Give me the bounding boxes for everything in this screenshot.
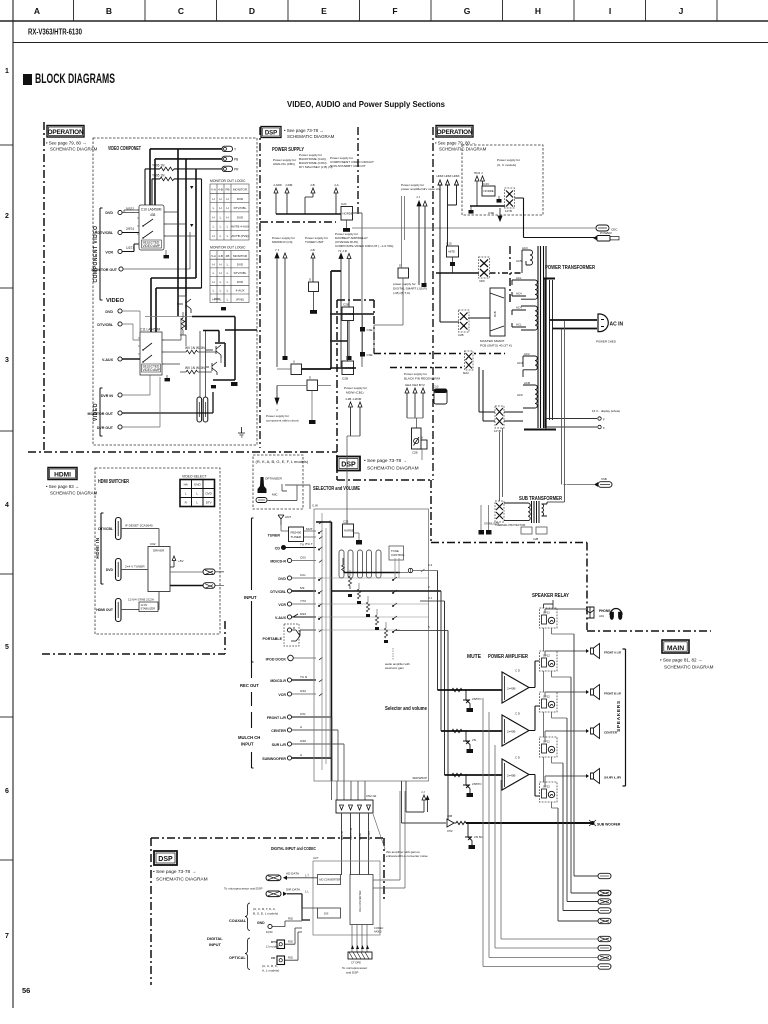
svg-text:J J: J J [421, 790, 425, 794]
svg-text:J J: J J [416, 195, 420, 199]
bracket INPUT [244, 518, 257, 662]
svg-text:G: G [464, 6, 471, 16]
svg-text:2×4 V TUNER: 2×4 V TUNER [125, 565, 145, 569]
wire relay column verticals [543, 628, 545, 782]
connector pill CEC [596, 225, 618, 232]
UC box text [474, 158, 520, 175]
jack DVR IN [101, 375, 150, 398]
svg-text:SUR L/R: SUR L/R [604, 776, 622, 780]
svg-text:J-B: J-B [310, 183, 315, 187]
svg-text:2×40B: 2×40B [507, 774, 516, 778]
wire amp1 to relay2 [529, 661, 540, 688]
sub transformer core [532, 501, 540, 523]
op-amp A3 [502, 756, 529, 791]
svg-text:L: L [213, 225, 215, 229]
fuse X low pair [494, 406, 504, 433]
svg-text:C.W: C.W [312, 504, 318, 508]
wire into D2 [277, 385, 331, 387]
connector pill POWER [593, 231, 619, 241]
op-amp A2 [502, 712, 529, 747]
coaxial group [229, 903, 318, 934]
svg-text:H: H [212, 215, 214, 219]
resistor R3 vertical [181, 312, 185, 335]
svg-text:SPEAKER RELAY: SPEAKER RELAY [532, 593, 569, 599]
svg-text:L: L [227, 280, 229, 284]
svg-text:DSP: DSP [158, 856, 173, 863]
selector row thick DTV [332, 590, 442, 592]
svg-text:electronic gain: electronic gain [385, 666, 404, 670]
relay RY5 sur [540, 782, 558, 802]
svg-text:1/377: 1/377 [126, 246, 134, 250]
wire uc to power line [515, 198, 524, 211]
svg-text:TU T: TU T [306, 542, 313, 546]
mute row 2 wire [441, 730, 502, 732]
psu text digital smart [393, 282, 427, 295]
svg-text:Selector and volume: Selector and volume [385, 706, 427, 712]
wire thick psu 314 [330, 313, 374, 315]
relay RY2 front A [540, 651, 558, 671]
svg-text:SP12: SP12 [543, 611, 550, 615]
svg-text:DVD: DVD [237, 280, 244, 284]
resistor RM4 [454, 821, 466, 824]
connector arrow dav filled [339, 254, 343, 259]
wire mute stems [419, 206, 425, 285]
svg-text:+5V: +5V [178, 559, 185, 563]
svg-text:C10 LA6458M: C10 LA6458M [141, 208, 162, 212]
svg-text:L: L [227, 225, 229, 229]
svg-text:DVD: DVD [105, 310, 113, 314]
diode D5 blob [497, 196, 502, 203]
label MAIN [660, 640, 714, 670]
wire component PR bus with resistor R1 [145, 164, 222, 206]
psu text component video [330, 156, 374, 187]
svg-text:C3E: C3E [367, 328, 373, 332]
svg-text:DIGITAL SMART (J,B,R): DIGITAL SMART (J,B,R) [393, 287, 427, 291]
svg-text:SPEAKERS: SPEAKERS [616, 700, 621, 732]
hdmi connector DVD [106, 559, 121, 581]
svg-text:FRONT L/R: FRONT L/R [267, 716, 287, 720]
svg-text:H: H [219, 263, 221, 267]
ic U3 hdmi driver [148, 542, 170, 592]
bracket COMPONENT VIDEO [93, 208, 103, 300]
svg-text:1.L: 1.L [305, 890, 309, 894]
wire transformer bottom thick [524, 429, 556, 431]
resistor R2 row [152, 174, 196, 206]
wire amp3 to relay5 [529, 775, 540, 797]
svg-text:E: E [321, 6, 327, 16]
psu text black fin [404, 372, 441, 387]
svg-text:VCR: VCR [278, 693, 286, 697]
svg-text:C2B: C2B [533, 537, 538, 541]
svg-text:J: J [276, 408, 278, 412]
svg-text:Power supply for: Power supply for [266, 414, 289, 418]
cap C22 [343, 220, 350, 232]
jack CD [275, 543, 316, 551]
svg-text:SP12: SP12 [543, 654, 550, 658]
svg-text:C: C [178, 6, 184, 16]
wire bus g1 [347, 436, 360, 524]
svg-text:POWER AMPLIFIER: POWER AMPLIFIER [488, 654, 528, 660]
svg-text:POWER TRANSFORMER: POWER TRANSFORMER [545, 265, 595, 271]
jack V-AUX video in [102, 357, 140, 362]
svg-text:• See page 81, 82 →: • See page 81, 82 → [660, 658, 702, 663]
wire DA right outputs [373, 791, 405, 888]
mute row 3 wire [445, 774, 503, 776]
svg-text:STABILIZER: STABILIZER [141, 607, 156, 611]
svg-text:L: L [220, 234, 222, 238]
wire uc bus [470, 205, 505, 207]
relay C2B 1 [342, 303, 354, 321]
svg-text:DVR OUT: DVR OUT [97, 426, 114, 430]
svg-text:(J,B) (B,T,U): (J,B) (B,T,U) [393, 291, 410, 295]
svg-text:PR: PR [234, 168, 239, 172]
selector below-box wires [332, 781, 366, 800]
component video out jacks P/B P/R Y [222, 146, 237, 151]
svg-text:DVD: DVD [237, 215, 244, 219]
svg-text:V-A: V-A [211, 254, 216, 258]
thermal protector fuse sub [495, 501, 525, 527]
svg-text:AC4: AC4 [516, 292, 522, 296]
resistor RM3 [452, 773, 462, 776]
svg-text:MONITOR: MONITOR [233, 254, 248, 258]
wire bus g2 [407, 418, 423, 428]
connector arrow mute filled [417, 201, 421, 206]
connector pill out A4 [598, 908, 611, 913]
wire U2 out right [162, 318, 181, 364]
connector arrow GE2 [405, 388, 409, 418]
wire ic out thin [170, 571, 203, 573]
wire hdmi out to ic [121, 592, 159, 612]
video select table [180, 475, 215, 507]
svg-text:DVD: DVD [206, 492, 213, 496]
svg-text:1: 1 [5, 68, 9, 75]
svg-text:H: H [212, 263, 214, 267]
svg-text:DTV: DTV [206, 501, 212, 505]
svg-text:TU T: TU T [300, 543, 307, 547]
svg-text:PORTABLE: PORTABLE [263, 637, 283, 641]
video out jack pill 2 [203, 397, 208, 422]
jack FRONT L/R [267, 712, 332, 720]
svg-text:L: L [220, 225, 222, 229]
svg-text:7J J-D: 7J J-D [338, 249, 348, 253]
wire pills up [200, 331, 206, 397]
svg-text:MONITOR OUT: MONITOR OUT [88, 412, 114, 416]
wire usb line [564, 484, 595, 486]
jack SUBWOOFER [262, 753, 331, 781]
digital input group labels [207, 936, 223, 947]
svg-text:AV/TB (PVE): AV/TB (PVE) [231, 234, 248, 238]
dashed box: U-C models power area [462, 145, 543, 215]
svg-text:2: 2 [428, 585, 430, 589]
svg-text:SUR L/R: SUR L/R [272, 743, 287, 747]
bracket REC OUT [240, 660, 259, 706]
connector arrows J J selector [406, 781, 430, 812]
svg-text:L: L [185, 492, 187, 496]
regulator box D1 [309, 278, 319, 311]
op-amp U1 component video switch LA6458 [137, 205, 166, 250]
svg-text:VCR: VCR [278, 603, 286, 607]
region border: DSP top power-supply section (dash-dot) [260, 127, 510, 480]
wire codec verticals labels [341, 827, 371, 840]
svg-text:MUTE: MUTE [467, 654, 481, 660]
svg-text:J-2B J-2DM: J-2B J-2DM [345, 397, 362, 401]
svg-text:DTV/CBL: DTV/CBL [98, 527, 113, 531]
psu text dav beat [335, 232, 393, 253]
svg-text:(U, C, R, K,: (U, C, R, K, [262, 964, 278, 968]
svg-text:C D: C D [515, 712, 520, 716]
svg-text:AC5: AC5 [516, 259, 522, 263]
svg-text:SP12: SP12 [543, 785, 550, 789]
svg-text:CD: CD [275, 547, 281, 551]
selector out rows right [400, 578, 429, 617]
connector arrow J-2B [349, 402, 353, 436]
regulator U box [291, 360, 302, 375]
svg-text:B, G, E, L models): B, G, E, L models) [253, 912, 278, 916]
wire relays to jacks [545, 609, 588, 787]
wire thick psu 341 [330, 340, 348, 342]
label OPERATION left [46, 126, 98, 152]
headphone icon [610, 609, 622, 620]
svg-text:MONITOR: MONITOR [233, 188, 248, 192]
table MONITOR OUT LOGIC 1 [210, 179, 249, 240]
svg-text:2-2: 2-2 [428, 563, 433, 567]
resistor RM1 [452, 688, 462, 691]
breaker relay C2B [412, 428, 422, 455]
svg-text:• See page 79, 80 →: • See page 79, 80 → [46, 141, 87, 146]
svg-text:ANT: ANT [285, 515, 291, 519]
switch contacts column [392, 577, 397, 633]
svg-text:5: 5 [428, 625, 430, 629]
svg-text:DIGHT L/R: DIGHT L/R [350, 827, 353, 840]
svg-text:HDMI: HDMI [445, 174, 452, 178]
svg-text:F: F [392, 6, 397, 16]
svg-text:IPOD DOCK: IPOD DOCK [266, 658, 287, 662]
connector arrow J-B [305, 188, 315, 214]
svg-text:SUB TRANSFORMER: SUB TRANSFORMER [519, 496, 562, 502]
svg-text:AC4: AC4 [516, 306, 522, 310]
svg-text:REC OUT: REC OUT [240, 683, 259, 688]
secondary winding mid2 [521, 306, 537, 330]
psu text power amp mute [401, 183, 442, 199]
transistor QM1 [463, 689, 482, 712]
svg-text:D/S: D/S [324, 912, 329, 916]
svg-text:MD/CD-R: MD/CD-R [270, 679, 286, 683]
svg-text:HDMI: HDMI [54, 472, 71, 479]
node arrows J [190, 186, 197, 191]
resistor R4 horizontal [180, 346, 206, 354]
svg-text:H: H [212, 280, 214, 284]
svg-text:J: J [679, 6, 684, 16]
svg-text:CONTROL: CONTROL [391, 553, 405, 557]
svg-text:DVD: DVD [237, 263, 244, 267]
jack DVR OUT [97, 377, 160, 430]
label DSP top [261, 127, 335, 140]
label OPERATION right [435, 126, 487, 152]
svg-text:PB2400: PB2400 [291, 531, 302, 535]
label DSP bottom [153, 851, 208, 883]
cap C34 [469, 206, 474, 214]
connector pill USB [594, 477, 612, 487]
jack MONITOR OUT component [92, 232, 191, 272]
connector pill out A5 [598, 918, 611, 923]
svg-text:L: L [227, 271, 229, 275]
resistor RM2 [452, 729, 462, 732]
relay C21 [341, 202, 353, 220]
bracket HDMI IN [95, 513, 104, 584]
diode blob C3E a [360, 314, 373, 332]
codec outer box [313, 856, 380, 935]
phone jack [586, 607, 610, 618]
svg-text:V-A: V-A [211, 188, 216, 192]
jack VCR rec [278, 689, 316, 697]
ribbon CT OPE [342, 925, 372, 975]
tap brackets ACL [512, 280, 526, 327]
svg-text:INPUT: INPUT [241, 742, 254, 747]
speaker jack SUR [586, 769, 622, 784]
svg-text:0/12: 0/12 [300, 689, 306, 693]
svg-text:D: D [309, 278, 312, 282]
svg-text:5/9: 5/9 [300, 586, 305, 590]
jack VCR audio [278, 599, 316, 607]
wire long gray CEC [352, 227, 596, 229]
svg-text:SCHEMATIC DIAGRAM: SCHEMATIC DIAGRAM [664, 665, 714, 670]
svg-text:HDMI: HDMI [453, 174, 460, 178]
wire CN2 down to codec [342, 813, 369, 875]
svg-text:To microprocessor: To microprocessor [342, 966, 367, 970]
transistor Q1 buffer [177, 299, 220, 313]
svg-text:SP12: SP12 [543, 740, 550, 744]
svg-text:WOL.M: WOL.M [341, 832, 344, 840]
svg-text:DVD: DVD [106, 568, 114, 572]
svg-text:INPUT: INPUT [244, 595, 257, 600]
connector CN2 [336, 794, 377, 813]
wire sel out volume rows [394, 601, 448, 631]
svg-text:AC3: AC3 [522, 246, 528, 250]
connector pill out B2 [598, 945, 611, 950]
wire amp2 to relay3 [529, 706, 540, 731]
svg-text:C2B: C2B [342, 377, 348, 381]
svg-text:J-B: J-B [310, 248, 315, 252]
svg-text:SP12: SP12 [543, 695, 550, 699]
wire vertical out2 down [196, 179, 202, 288]
jack MD/CD-R top [270, 556, 316, 564]
psu text MD/DM [272, 236, 295, 252]
svg-text:MAIN: MAIN [667, 645, 684, 652]
relay RY3 front B [540, 692, 558, 712]
transistor QM3 [463, 774, 482, 797]
jack MD/CD-R rec [270, 675, 316, 683]
svg-text:AD DATA: AD DATA [286, 872, 300, 876]
ic D/A converter [350, 875, 373, 925]
wire component Y bus [150, 149, 222, 205]
svg-text:A: A [34, 6, 40, 16]
wire multi ch verticals [332, 717, 344, 781]
svg-text:AC2: AC2 [524, 352, 530, 356]
svg-text:16 V... display (whole): 16 V... display (whole) [592, 409, 620, 413]
svg-text:Y005 1N: Y005 1N [152, 164, 165, 168]
svg-text:A6TE: A6TE [448, 250, 455, 254]
svg-text:Y005 1N: Y005 1N [152, 174, 165, 178]
svg-text:A, L models): A, L models) [262, 969, 279, 973]
relay X rect [458, 310, 469, 337]
svg-text:HDMI OUT: HDMI OUT [96, 608, 114, 612]
secondary winding mid1 [521, 280, 537, 299]
svg-text:C3E: C3E [488, 211, 494, 215]
svg-text:ANALOG (CB1): ANALOG (CB1) [273, 162, 295, 166]
ground sym1 [238, 427, 245, 437]
svg-text:C2x: C2x [300, 573, 306, 577]
connector pill hdmi out1 [203, 569, 215, 575]
svg-text:• See page 73-78 →: • See page 73-78 → [284, 128, 324, 133]
ground arrow uc [488, 208, 502, 221]
svg-text:C3E: C3E [367, 353, 373, 357]
connector arrow J-2DM [358, 402, 362, 436]
wire dav stems [341, 259, 349, 368]
svg-text:DVR IN: DVR IN [101, 394, 114, 398]
fuse X on border [463, 351, 473, 375]
connector pill AD DATA [266, 872, 318, 881]
svg-text:NORDE: NORDE [344, 529, 354, 533]
jack IPOD DOCK [266, 655, 316, 661]
sub transformer primary winding [504, 503, 530, 521]
cap C below D1 [310, 310, 317, 314]
svg-text:CODEC: CODEC [374, 926, 383, 930]
svg-text:component video circuit: component video circuit [266, 419, 299, 423]
svg-text:VIDEO, AUDIO and Power Supply: VIDEO, AUDIO and Power Supply Sections [287, 99, 445, 109]
wire rect to relay [440, 273, 490, 322]
svg-text:WV 1N W10N: WV 1N W10N [185, 366, 206, 370]
jack SUR L/R [272, 739, 344, 747]
svg-text:C23: C23 [343, 520, 349, 524]
svg-text:NORDE: NORDE [343, 212, 353, 216]
svg-text:L: L [227, 263, 229, 267]
svg-text:1.T: 1.T [305, 874, 309, 878]
svg-text:NORDE: NORDE [484, 189, 494, 193]
svg-text:V-AUX: V-AUX [275, 616, 287, 620]
selector box [312, 504, 429, 782]
svg-text:AC LR3: AC LR3 [368, 831, 371, 840]
wire U box thick out [302, 368, 332, 370]
svg-text:2: 2 [5, 213, 9, 220]
svg-text:TUNER: TUNER [291, 535, 302, 539]
svg-text:AV/TB 4-AUX: AV/TB 4-AUX [231, 225, 249, 229]
svg-text:H: H [219, 271, 221, 275]
svg-text:L: L [213, 289, 215, 293]
svg-text:12YB: 12YB [505, 209, 512, 213]
wire thick psu 368 [330, 367, 356, 369]
dashed box: VIDEO COMPONET block [93, 138, 257, 445]
relay C2B 2 [342, 361, 354, 381]
svg-text:power amplifier/drv mute circ.: power amplifier/drv mute circ. [401, 187, 442, 191]
svg-text:COMPONENT VIDEO: COMPONENT VIDEO [93, 226, 99, 283]
svg-text:• See page 79, 80 →: • See page 79, 80 → [435, 141, 476, 146]
arrow down component video supply [266, 386, 299, 423]
primary winding top [522, 250, 533, 273]
svg-text:0/10: 0/10 [300, 739, 306, 743]
cap C5 black [231, 382, 238, 386]
svg-text:CD: CD [271, 956, 276, 960]
svg-text:H: H [219, 197, 221, 201]
svg-text:DIR DATA: DIR DATA [286, 888, 301, 892]
connector arrow CE2 [413, 388, 417, 418]
svg-text:HDMI: HDMI [437, 174, 444, 178]
svg-text:B: B [106, 6, 112, 16]
svg-text:2N 6C: 2N 6C [474, 835, 484, 839]
svg-text:4A300: 4A300 [374, 930, 382, 934]
svg-text:7/72: 7/72 [300, 599, 306, 603]
svg-text:CT OPE: CT OPE [351, 961, 361, 965]
svg-text:C92: C92 [150, 542, 156, 546]
